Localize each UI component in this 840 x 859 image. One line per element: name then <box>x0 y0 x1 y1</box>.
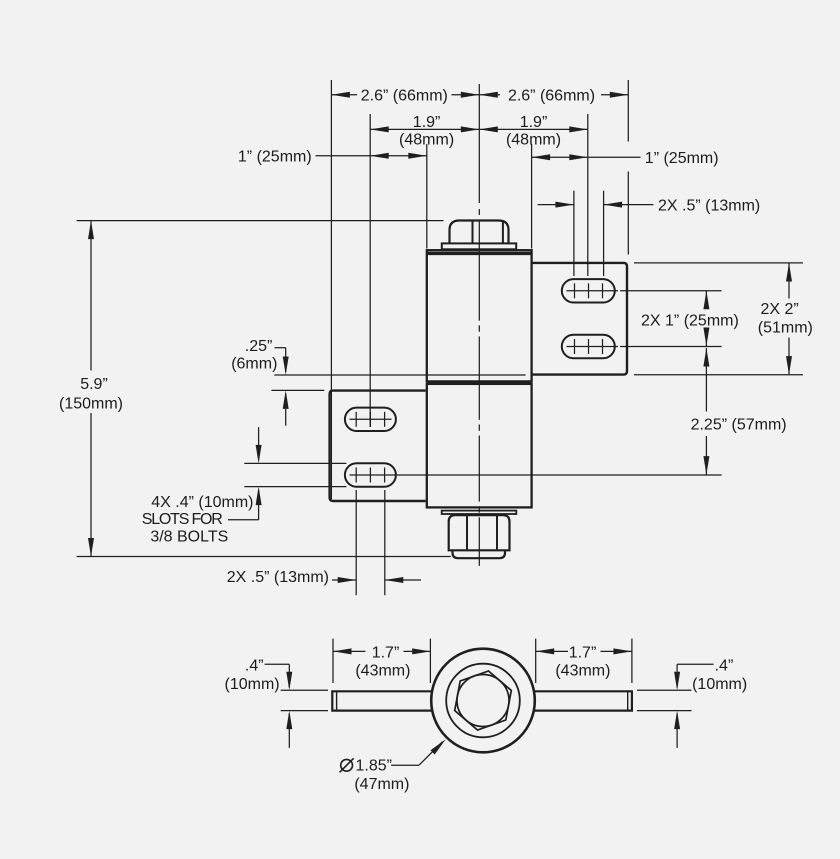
svg-text:2X .5” (13mm): 2X .5” (13mm) <box>227 569 329 586</box>
svg-text:(47mm): (47mm) <box>354 776 409 793</box>
extension line right slot1 centerline <box>620 290 722 292</box>
svg-text:4X .4” (10mm): 4X .4” (10mm) <box>151 494 253 511</box>
svg-text:(48mm): (48mm) <box>399 132 454 149</box>
extension line bar right end <box>631 639 633 683</box>
right mounting plate <box>532 263 627 375</box>
svg-text:2X .5” (13mm): 2X .5” (13mm) <box>658 197 760 214</box>
dimension .25in plate offset <box>275 347 286 349</box>
svg-text:(51mm): (51mm) <box>758 319 813 336</box>
hinge barrel upper body <box>427 250 532 381</box>
hinge barrel lower body <box>427 384 532 508</box>
right plate slot upper <box>562 279 615 302</box>
left plate slot lower hatch <box>355 468 357 483</box>
barrel vertical centerline <box>478 84 480 203</box>
extension line slot4 bottom edge <box>244 486 346 488</box>
left plate slot lower <box>345 463 396 486</box>
extension line right plate bottom edge <box>274 374 525 376</box>
svg-text:.25”: .25” <box>245 338 273 355</box>
extension line barrel right edge <box>531 144 533 249</box>
extension line barrel left edge <box>426 144 428 249</box>
dimension 1.9in right <box>479 128 588 130</box>
dimension 2X 2in right <box>788 263 790 299</box>
left plate slot upper <box>345 408 396 431</box>
top bolt washer <box>442 243 516 249</box>
dimension 2X .5in bottom <box>332 579 356 581</box>
svg-text:SLOTS FOR: SLOTS FOR <box>142 511 223 528</box>
svg-text:(150mm): (150mm) <box>59 396 123 413</box>
svg-text:1.7”: 1.7” <box>569 644 597 661</box>
svg-text:1.9”: 1.9” <box>413 114 441 131</box>
extension line slot4 tick left <box>355 490 357 595</box>
svg-text:.4”: .4” <box>245 658 264 675</box>
svg-text:(43mm): (43mm) <box>555 663 610 680</box>
extension line right plate right edge <box>627 80 629 142</box>
dimension 2X 1in right <box>705 291 707 307</box>
bottom bolt washer <box>442 511 517 514</box>
dimension .4in right bar <box>677 663 714 665</box>
extension line left bar top <box>281 689 328 691</box>
dimension 4X .4in slot width <box>258 427 260 460</box>
svg-text:2X 2”: 2X 2” <box>760 301 798 318</box>
svg-text:(43mm): (43mm) <box>355 663 410 680</box>
svg-text:2.25” (57mm): 2.25” (57mm) <box>691 417 787 434</box>
extension line left slot4 centerline <box>350 474 722 476</box>
dimension 1.9in left <box>370 128 479 130</box>
svg-text:(10mm): (10mm) <box>692 676 747 693</box>
svg-text:3/8 BOLTS: 3/8 BOLTS <box>150 528 228 545</box>
right plate slot lower <box>562 335 615 358</box>
extension line right bar top <box>637 689 692 691</box>
extension line right slot tick right <box>603 191 605 276</box>
dimension 2.6in left <box>331 94 357 96</box>
svg-text:(48mm): (48mm) <box>506 132 561 149</box>
dimension 2X .5in top right <box>538 204 574 206</box>
right plate slot upper hatch <box>567 290 619 292</box>
extension line slot4 tick right <box>384 490 386 595</box>
svg-text:.4”: .4” <box>715 658 734 675</box>
svg-text:1.85”: 1.85” <box>356 758 392 775</box>
extension line left bar bottom <box>281 710 328 712</box>
bottom view inner circle <box>446 664 520 738</box>
svg-text:2X 1” (25mm): 2X 1” (25mm) <box>641 313 739 330</box>
dimension 1in right <box>532 156 641 158</box>
svg-text:2.6” (66mm): 2.6” (66mm) <box>508 87 595 104</box>
dimension 2.6in right <box>479 94 500 96</box>
extension line overall top <box>77 220 444 222</box>
top hex bolt head <box>450 221 509 244</box>
dimension .4in left bar <box>265 663 290 665</box>
extension line overall bottom <box>77 556 451 558</box>
extension line circle right <box>535 639 537 683</box>
extension line right plate top edge <box>634 262 803 264</box>
bottom view right bar <box>534 691 632 710</box>
svg-text:5.9”: 5.9” <box>80 376 108 393</box>
extension line right bar bottom <box>637 710 692 712</box>
extension line bar left end <box>332 639 334 683</box>
extension line right slot2 centerline <box>620 346 722 348</box>
dimension 1in left <box>316 155 427 157</box>
extension line left slot center <box>369 114 371 427</box>
dimension 1.7in left <box>333 650 366 652</box>
svg-text:2.6” (66mm): 2.6” (66mm) <box>361 87 448 104</box>
dimension 2.25in right <box>705 348 707 412</box>
extension line left plate left edge <box>330 80 332 499</box>
bottom bolt collar <box>453 550 506 558</box>
extension line left plate top edge <box>271 389 324 391</box>
svg-text:1” (25mm): 1” (25mm) <box>238 148 312 165</box>
svg-text:1.7”: 1.7” <box>372 644 400 661</box>
label diameter 1.85in <box>341 759 353 771</box>
left mounting plate <box>330 391 426 501</box>
svg-text:1” (25mm): 1” (25mm) <box>645 150 719 167</box>
left plate slot upper hatch <box>350 418 392 420</box>
extension line slot4 top edge <box>244 462 346 464</box>
dimension 5.9in overall height <box>90 221 92 371</box>
bottom view hex socket <box>455 671 512 730</box>
extension line right slot tick left <box>573 191 575 276</box>
bottom hex nut <box>449 515 510 550</box>
svg-text:1.9”: 1.9” <box>520 114 548 131</box>
svg-text:(6mm): (6mm) <box>231 356 277 373</box>
svg-text:(10mm): (10mm) <box>224 676 279 693</box>
bottom view outer circle <box>431 649 535 753</box>
bottom view left bar <box>332 691 432 710</box>
extension line circle left <box>429 639 431 683</box>
dimension 1.7in right <box>536 650 568 652</box>
extension line right slot center <box>587 114 589 276</box>
right plate slot lower hatch <box>567 346 619 348</box>
